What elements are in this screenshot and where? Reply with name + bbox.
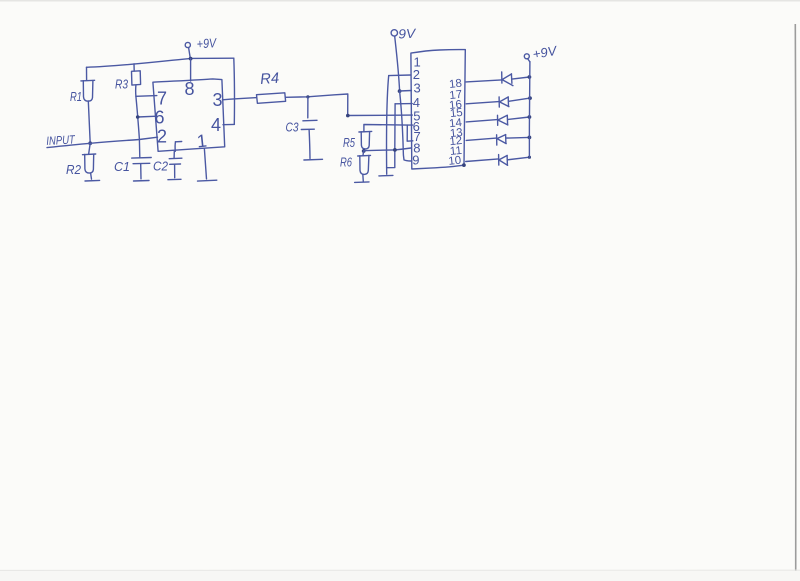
svg-text:4: 4 — [211, 115, 221, 135]
svg-text:R5: R5 — [343, 135, 356, 150]
svg-text:9: 9 — [412, 153, 419, 168]
svg-text:3: 3 — [213, 90, 223, 110]
svg-text:9V: 9V — [398, 26, 417, 42]
svg-text:R6: R6 — [340, 155, 353, 170]
svg-text:8: 8 — [185, 79, 195, 99]
svg-text:C1: C1 — [114, 159, 130, 174]
svg-text:1: 1 — [196, 130, 208, 151]
svg-text:+9V: +9V — [196, 35, 218, 51]
svg-text:R4: R4 — [260, 70, 280, 88]
svg-text:R3: R3 — [115, 77, 129, 92]
svg-text:7: 7 — [157, 89, 167, 109]
svg-text:6: 6 — [155, 108, 165, 128]
svg-text:INPUT: INPUT — [46, 132, 77, 148]
svg-text:C3: C3 — [286, 120, 300, 135]
svg-text:C2: C2 — [153, 159, 169, 174]
svg-text:3: 3 — [414, 80, 421, 95]
svg-text:R1: R1 — [70, 89, 82, 104]
svg-text:10: 10 — [448, 155, 462, 168]
svg-text:R2: R2 — [66, 162, 82, 177]
svg-text:2: 2 — [157, 127, 167, 147]
